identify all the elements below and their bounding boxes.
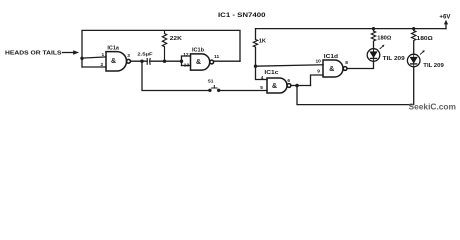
wire: input arrow shaft: [63, 52, 76, 54]
wire: 1K top lead: [255, 29, 257, 40]
svg-text:1: 1: [102, 52, 105, 58]
junction: +6V rail to 180ohm left: [372, 27, 375, 30]
junction: input node at IC1a: [80, 57, 83, 60]
wire: LED2 resistor to LED anode: [413, 42, 415, 55]
wire: left feedback loop top: [82, 30, 240, 67]
svg-text:2.5μF: 2.5μF: [137, 52, 152, 58]
junction: IC1c output node: [295, 84, 299, 88]
wire: LED1 branch top lead: [373, 29, 375, 31]
wire: LED2 branch top lead: [413, 29, 415, 31]
svg-text:22K: 22K: [170, 36, 182, 42]
svg-text:&: &: [329, 66, 334, 73]
svg-text:HEADS OR TAILS: HEADS OR TAILS: [5, 51, 62, 57]
resistor R 180ohm right: [412, 31, 416, 42]
svg-text:9: 9: [317, 68, 320, 74]
svg-text:&: &: [272, 83, 277, 90]
svg-text:180Ω: 180Ω: [417, 36, 434, 42]
wire: IC1b input vertical: [181, 56, 183, 65]
svg-text:2: 2: [101, 62, 104, 68]
wire: IC1a output to capacitor: [131, 60, 148, 62]
svg-text:1K: 1K: [259, 39, 266, 45]
switch S1 push-button: [209, 85, 220, 92]
junction: 22K to coupling line: [163, 60, 166, 63]
wire: S1 branch from cap junction: [142, 61, 210, 90]
junction: IC1a output / S1 branch: [140, 60, 143, 63]
svg-text:S1: S1: [208, 79, 214, 85]
wire: IC1b pin12 stub: [182, 55, 191, 57]
wire: IC1b pin13 stub: [182, 65, 191, 67]
svg-text:11: 11: [214, 54, 219, 60]
svg-text:TIL 209: TIL 209: [383, 56, 405, 62]
svg-text:IC1c: IC1c: [264, 70, 278, 76]
svg-text:+6V: +6V: [439, 14, 450, 20]
svg-text:5: 5: [260, 85, 263, 91]
wire: IC1d output to LED1 cathode: [347, 61, 373, 68]
junction: 1K / pin10 / pin4 node: [254, 65, 257, 68]
arrow head: input HEADS OR TAILS: [73, 50, 79, 55]
arrow head: +6V: [444, 20, 448, 25]
svg-text:IC1d: IC1d: [324, 54, 339, 60]
wire: 1K junction to IC1d pin10: [256, 65, 324, 66]
wire: 1K bottom lead: [255, 48, 257, 66]
NAND gate IC1c: [267, 78, 291, 93]
svg-text:&: &: [111, 58, 116, 65]
wire: top right +6V rail: [256, 28, 447, 30]
NAND gate IC1a: [106, 52, 130, 71]
wire: +6V stub: [445, 22, 447, 28]
svg-text:180Ω: 180Ω: [377, 36, 392, 42]
wire: IC1a pin1: [82, 57, 106, 58]
resistor R 22K: [162, 30, 166, 61]
svg-text:12: 12: [183, 52, 189, 58]
resistor R 1K: [253, 40, 257, 49]
capacitor C 2.5uF: [147, 58, 150, 65]
svg-text:SeekiC.com: SeekiC.com: [409, 102, 457, 111]
junction: IC1b paralleled inputs: [180, 60, 183, 63]
wire: IC1c output to LED2 cathode: [297, 67, 414, 105]
LED D1 TIL209: [367, 45, 384, 62]
svg-text:&: &: [196, 59, 201, 66]
svg-text:IC1 - SN7400: IC1 - SN7400: [218, 12, 266, 19]
NAND gate IC1b: [191, 54, 214, 70]
svg-text:TIL 209: TIL 209: [423, 63, 444, 69]
wire: capacitor to IC1b input: [150, 60, 182, 62]
junction: +6V rail to 180ohm right: [412, 27, 415, 30]
wire: S1 to IC1c pin5: [219, 90, 267, 92]
svg-text:4: 4: [261, 75, 264, 81]
svg-text:10: 10: [316, 59, 322, 65]
resistor R 180ohm left: [371, 31, 375, 42]
wire: 1K junction to IC1c pin4: [256, 66, 268, 79]
svg-text:6: 6: [287, 78, 290, 84]
svg-text:13: 13: [184, 62, 190, 68]
wire: LED1 resistor to LED anode: [373, 42, 375, 49]
svg-text:IC1b: IC1b: [192, 47, 205, 53]
svg-text:3: 3: [127, 53, 130, 59]
wire: IC1a pin2: [82, 66, 106, 68]
LED D2 TIL209: [407, 50, 424, 67]
wire: staircase to IC1d pin9: [311, 75, 324, 86]
svg-text:IC1a: IC1a: [107, 45, 119, 51]
wire: IC1c output: [291, 85, 311, 87]
wire: IC1b output: [214, 60, 240, 62]
svg-text:8: 8: [345, 60, 348, 66]
NAND gate IC1d: [323, 60, 347, 77]
